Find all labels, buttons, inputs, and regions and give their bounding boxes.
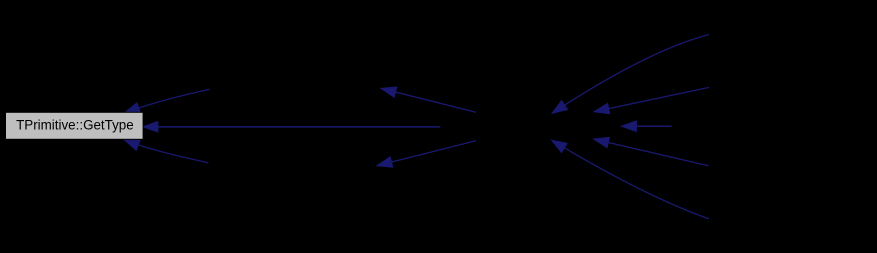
edge E4 center node to caller1 (straight up-left) (381, 87, 476, 112)
edge E2 center node to TPrimitive::GetType (long horizontal, arrowhead at box right edge) (143, 122, 441, 133)
edge E10 bottom-right caller to center node (big curve, arrowhead points up-left) (552, 140, 710, 219)
edge E7 right caller to center node (straight, shallow down-left) (594, 87, 709, 113)
edge E6 top-right caller to center node (big curve, arrowhead points down-left) (552, 35, 709, 114)
edge E5 center node to caller2 (straight down-left) (377, 141, 476, 168)
edge E9 right caller to center node (straight, shallow up-left) (594, 137, 709, 166)
edge E3 caller2 to TPrimitive::GetType (curved, arrowhead at box bottom-right) (124, 140, 208, 163)
svg-text:TPrimitive::GetType: TPrimitive::GetType (16, 117, 134, 132)
edge E8 mid-right caller to center node (short horizontal) (621, 121, 671, 132)
edge E1 caller1 to TPrimitive::GetType (curved, arrowhead at box top-right) (125, 89, 210, 112)
node TPrimitive::GetType (focal node, grey box with black border) (6, 112, 144, 139)
